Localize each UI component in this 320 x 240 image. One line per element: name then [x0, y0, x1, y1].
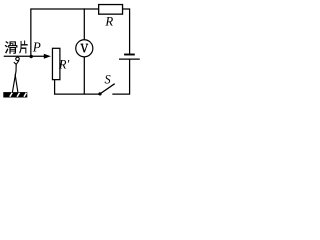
person head	[16, 57, 20, 61]
wire: rheostat drop + bottom-left segment	[55, 80, 99, 94]
wire: top-right segment + right vertical upper	[122, 9, 129, 54]
wire voltmeter branch lower	[83, 57, 85, 94]
person left arm	[14, 62, 16, 64]
platform base	[3, 92, 27, 97]
battery positive plate (long thin)	[119, 58, 140, 60]
platform gap 1	[10, 93, 12, 97]
slider arrow shaft	[31, 55, 44, 57]
voltmeter letter V (drawn)	[81, 44, 89, 52]
person left leg	[12, 71, 16, 92]
battery negative plate (short thick)	[124, 54, 135, 56]
svg-text:S: S	[105, 73, 111, 87]
node P junction dot	[30, 55, 33, 58]
switch S blade	[100, 84, 115, 94]
voltmeter V body	[76, 40, 93, 57]
wire: left vertical + top-left segment	[31, 9, 99, 57]
label 滑	[5, 41, 18, 54]
switch pivot dot	[98, 92, 101, 95]
platform gap 2	[17, 93, 19, 97]
person right leg	[15, 74, 18, 92]
platform gap 3	[24, 93, 26, 97]
wire voltmeter branch upper	[83, 8, 85, 40]
label 片	[19, 41, 28, 54]
rope line to person	[4, 55, 31, 57]
svg-text:R′: R′	[58, 57, 70, 71]
slider arrow head	[44, 54, 51, 59]
svg-text:R: R	[104, 15, 113, 29]
person right arm	[16, 61, 19, 65]
rheostat R' body	[52, 48, 59, 79]
resistor R	[99, 5, 123, 15]
person body	[15, 64, 17, 72]
svg-text:P: P	[32, 40, 41, 55]
wire: right vertical lower + bottom-right segment	[112, 59, 129, 94]
